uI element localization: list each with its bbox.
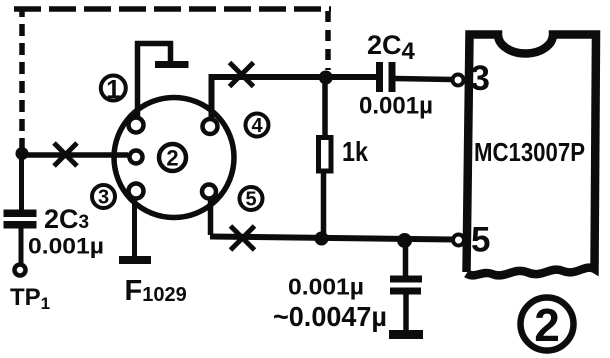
svg-text:3: 3: [98, 187, 109, 209]
wire socket pin 5 down: [208, 198, 214, 235]
wire capacitor 2C3 to TP1: [19, 228, 24, 265]
dashed shield border left: [19, 9, 25, 150]
X mark on pin5 wire: [231, 226, 255, 250]
X mark on pin4 wire: [230, 63, 254, 87]
wire socket pin 3 to ground: [132, 198, 137, 257]
junction node C: [315, 232, 329, 246]
socket pin 3: [129, 184, 144, 199]
wire node B to resistor R1: [322, 77, 328, 137]
svg-text:5: 5: [471, 221, 490, 260]
svg-text:4: 4: [251, 115, 263, 137]
svg-text:3: 3: [471, 59, 490, 98]
wire socket pin 4 to node B: [212, 77, 378, 119]
IC U1 MC13007P body: [467, 35, 597, 276]
svg-text:0.001µ: 0.001µ: [359, 93, 433, 120]
X mark on pin2 wire: [54, 143, 77, 166]
wire resistor R1 to node C: [321, 173, 327, 238]
IC pin 3 terminal: [453, 75, 464, 86]
dashed shield border top: [14, 6, 331, 12]
circled label 1: [101, 76, 126, 101]
circled label 3: [92, 185, 115, 208]
capacitor 2C3 plates: [4, 210, 37, 218]
wire socket pin 1 to ground: [138, 44, 171, 118]
capacitor 2C4 plates: [376, 62, 383, 92]
wire node A down to capacitor 2C3: [19, 153, 24, 210]
svg-text:0.001µ: 0.001µ: [288, 274, 364, 300]
svg-text:1k: 1k: [342, 136, 368, 167]
resistor R 1k: [319, 138, 332, 172]
svg-text:1: 1: [106, 74, 120, 104]
test point TP1 terminal: [15, 265, 26, 276]
ground bar bottom capacitor: [389, 330, 423, 339]
wire node D to bottom capacitor: [403, 240, 409, 276]
ground bar top: [155, 61, 189, 68]
bottom capacitor plates: [390, 276, 422, 283]
wire node A to socket pin 2: [22, 152, 128, 158]
svg-text:MC13007P: MC13007P: [474, 137, 585, 167]
socket pin 5: [202, 185, 216, 199]
ground bar below socket: [119, 256, 151, 264]
circled label 2 socket: [159, 144, 186, 171]
circled figure number 2: [521, 298, 574, 351]
tube socket F1029 outline: [114, 98, 234, 218]
dashed shield border right drop: [325, 11, 331, 70]
circled label 5: [240, 187, 263, 210]
svg-text:2: 2: [166, 146, 178, 171]
svg-text:2: 2: [534, 299, 560, 351]
IC pin 5 terminal: [453, 235, 464, 246]
junction node B: [319, 71, 333, 85]
junction node D: [397, 233, 412, 248]
svg-text:0.001µ: 0.001µ: [28, 234, 104, 259]
wire capacitor 2C4 to IC pin 3: [395, 79, 452, 80]
svg-text:5: 5: [245, 189, 256, 211]
circled label 4: [246, 114, 269, 137]
junction node A: [16, 147, 29, 160]
wire bottom bus to IC pin 5: [210, 237, 453, 240]
svg-text:~0.0047µ: ~0.0047µ: [273, 301, 387, 332]
socket pin 1: [129, 118, 144, 133]
socket pin 4: [203, 119, 218, 134]
socket pin 2: [130, 151, 143, 164]
wire bottom capacitor to ground: [403, 294, 409, 331]
